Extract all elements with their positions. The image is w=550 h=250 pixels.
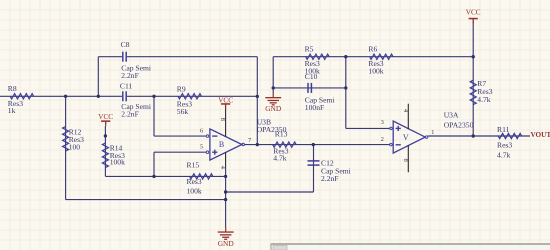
svg-text:R6: R6 bbox=[368, 45, 377, 54]
svg-text:2: 2 bbox=[381, 136, 384, 143]
svg-text:V: V bbox=[403, 133, 409, 142]
svg-text:3: 3 bbox=[381, 119, 384, 126]
svg-text:GND: GND bbox=[265, 104, 282, 113]
svg-text:C8: C8 bbox=[121, 40, 130, 49]
svg-text:R8: R8 bbox=[8, 84, 17, 93]
svg-text:2.2nF: 2.2nF bbox=[321, 174, 339, 183]
svg-text:4.7k: 4.7k bbox=[497, 151, 510, 160]
svg-text:5: 5 bbox=[200, 144, 203, 151]
svg-text:100k: 100k bbox=[368, 67, 383, 76]
svg-text:R13: R13 bbox=[275, 130, 288, 139]
svg-text:Res3: Res3 bbox=[497, 140, 512, 149]
svg-text:1k: 1k bbox=[8, 106, 16, 115]
svg-text:100nF: 100nF bbox=[305, 103, 324, 112]
svg-text:2.2nF: 2.2nF bbox=[121, 110, 139, 119]
svg-text:R15: R15 bbox=[187, 161, 200, 170]
svg-text:C10: C10 bbox=[305, 72, 318, 81]
svg-text:C11: C11 bbox=[120, 81, 133, 90]
svg-text:OPA2350: OPA2350 bbox=[444, 121, 474, 130]
svg-text:VCC: VCC bbox=[466, 9, 481, 17]
svg-text:R11: R11 bbox=[497, 125, 510, 134]
svg-text:Res3: Res3 bbox=[187, 177, 202, 186]
svg-text:7: 7 bbox=[248, 137, 251, 144]
svg-text:U3A: U3A bbox=[444, 111, 459, 120]
svg-text:6: 6 bbox=[200, 127, 203, 134]
svg-text:GND: GND bbox=[218, 239, 235, 248]
svg-text:2.2nF: 2.2nF bbox=[121, 71, 139, 80]
svg-text:4.7k: 4.7k bbox=[273, 153, 286, 162]
svg-text:100: 100 bbox=[69, 143, 81, 152]
svg-text:100k: 100k bbox=[110, 157, 125, 166]
svg-text:4.7k: 4.7k bbox=[477, 95, 490, 104]
svg-text:VCC: VCC bbox=[98, 113, 113, 121]
svg-text:B: B bbox=[219, 140, 224, 149]
svg-text:VOUT: VOUT bbox=[531, 131, 550, 139]
svg-text:1: 1 bbox=[431, 129, 434, 136]
svg-text:100k: 100k bbox=[187, 187, 202, 196]
svg-text:R9: R9 bbox=[177, 84, 186, 93]
svg-text:56k: 56k bbox=[177, 107, 189, 116]
svg-text:R5: R5 bbox=[305, 45, 314, 54]
